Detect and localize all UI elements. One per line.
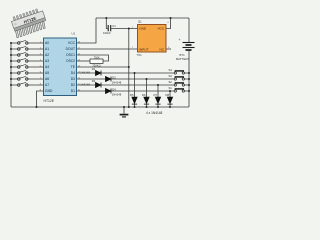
svg-text:S4: S4 — [169, 68, 173, 72]
svg-text:OSC2: OSC2 — [66, 59, 75, 63]
svg-text:A7: A7 — [45, 83, 49, 87]
svg-text:DOUT: DOUT — [66, 47, 75, 51]
svg-text:VCC: VCC — [68, 41, 76, 45]
svg-text:A1: A1 — [45, 47, 49, 51]
svg-text:GND: GND — [139, 27, 147, 31]
svg-text:S2: S2 — [169, 80, 173, 84]
svg-text:750KΩ: 750KΩ — [92, 63, 100, 67]
svg-text:S3: S3 — [169, 74, 173, 78]
svg-text:A6: A6 — [45, 77, 49, 81]
svg-text:1N4148: 1N4148 — [80, 71, 90, 75]
svg-text:HT12E: HT12E — [44, 99, 55, 103]
svg-text:D7: D7 — [154, 93, 158, 97]
svg-text:GND: GND — [45, 89, 53, 93]
svg-text:INPUT: INPUT — [139, 47, 148, 51]
svg-text:A2: A2 — [45, 53, 49, 57]
svg-text:D2: D2 — [112, 75, 116, 79]
svg-text:4 x 1N4148: 4 x 1N4148 — [146, 111, 163, 115]
svg-text:NC: NC — [160, 47, 165, 51]
svg-text:+: + — [179, 38, 181, 42]
svg-text:A3: A3 — [45, 59, 49, 63]
svg-text:100nF: 100nF — [103, 31, 111, 35]
svg-text:A5: A5 — [45, 71, 49, 75]
svg-text:D4: D4 — [71, 71, 75, 75]
svg-text:D2: D2 — [71, 83, 75, 87]
svg-text:OSC1: OSC1 — [66, 53, 75, 57]
svg-text:1N4148: 1N4148 — [112, 93, 122, 97]
svg-text:D4: D4 — [112, 87, 116, 91]
svg-text:1N4148: 1N4148 — [80, 83, 90, 87]
svg-text:D3: D3 — [71, 77, 75, 81]
svg-text:D8: D8 — [166, 93, 170, 97]
svg-text:TX1: TX1 — [137, 53, 143, 57]
svg-text:A0: A0 — [45, 41, 49, 45]
svg-text:U1: U1 — [72, 32, 76, 36]
svg-text:A4: A4 — [45, 65, 49, 69]
svg-text:1N4148: 1N4148 — [112, 81, 122, 85]
svg-text:D5: D5 — [130, 93, 134, 97]
svg-text:D1: D1 — [71, 89, 75, 93]
svg-text:S1: S1 — [169, 86, 173, 90]
svg-text:750K: 750K — [94, 56, 100, 59]
svg-text:D1: D1 — [92, 67, 96, 71]
svg-text:D3: D3 — [92, 79, 96, 83]
svg-text:Q1: Q1 — [138, 20, 142, 24]
svg-text:BATTERY: BATTERY — [176, 57, 190, 61]
svg-text:VCC: VCC — [157, 27, 164, 31]
svg-text:C1: C1 — [112, 24, 116, 28]
svg-text:D6: D6 — [142, 93, 146, 97]
